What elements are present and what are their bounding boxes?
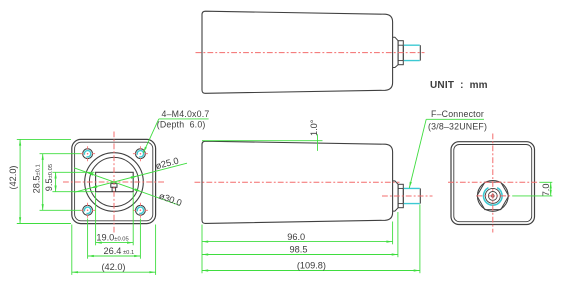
svg-text:UNIT : mm: UNIT : mm [430,80,488,91]
dim (109.8) extension line [419,205,421,274]
top view center line [196,52,425,54]
dim 26.4 line [88,255,141,257]
dim 98.5 [202,254,398,256]
side view connector washer [393,181,399,211]
dim 9.5 extension lines [52,171,94,173]
rear inner square [454,145,532,222]
probe [111,184,117,188]
svg-text:ø25.0: ø25.0 [154,156,179,172]
mounting hole bottom-right [133,203,148,218]
top view connector nut [398,41,403,65]
svg-text:96.0: 96.0 [287,232,305,242]
dim 28.5 extension lines [40,153,81,155]
top view thread cylinder [402,45,404,60]
rear center lines [492,134,494,233]
leader dia 30.0 [74,168,180,206]
dim (42.0) bottom line [72,271,156,273]
rear connector thread circle (cyan) [483,188,502,206]
svg-text:(42.0): (42.0) [101,262,125,272]
svg-text:(Depth 6.0): (Depth 6.0) [157,120,206,130]
F-Connector leader [409,119,426,188]
dim 7.0 line [550,182,552,196]
waveguide rectangle [96,172,134,191]
dim (109.8) [202,270,420,272]
mounting hole top-left [80,146,95,161]
dim 7.0 extension lines [512,195,552,197]
dim 9.5 line [55,172,57,191]
dim (42.0) left: extension lines [17,138,71,140]
svg-text:F–Connector: F–Connector [431,109,484,119]
top view connector washer [393,37,399,67]
circle dia 30 [85,153,144,212]
dim 96.0 [202,241,393,243]
dim 96.0 extension lines [201,225,203,274]
svg-text:(42.0): (42.0) [8,165,18,189]
front view center lines [113,132,115,233]
dim 28.5 line [42,154,44,211]
rear connector hex nut [477,182,509,210]
dim (42.0) left line [19,139,21,223]
svg-text:26.4 ±0.1: 26.4 ±0.1 [104,246,135,256]
svg-text:7.0: 7.0 [541,184,551,197]
leader dia 25.0 [74,163,187,192]
top view horn body [202,11,393,93]
circle dia 25 [89,157,138,206]
1.0 deg reference line [202,140,323,142]
mounting hole top-right [133,146,148,161]
side view main center line [195,181,400,183]
side view connector center line [382,195,433,197]
svg-text:(109.8): (109.8) [297,261,326,271]
leader 4-M4.0x0.7 [143,119,159,153]
svg-text:4–M4.0x0.7: 4–M4.0x0.7 [162,109,210,119]
flange inner square [75,142,153,221]
dim 26.4 extension lines [87,219,89,259]
side view thread cylinder [402,188,404,203]
side view connector nut [398,184,403,207]
svg-text:19.0±0.05: 19.0±0.05 [96,233,128,243]
rear connector horizontal center line [477,195,511,197]
svg-text:28.5±0.1: 28.5±0.1 [31,164,41,193]
rear connector washer circle [477,181,508,212]
svg-text:(3/8–32UNEF): (3/8–32UNEF) [428,122,487,132]
svg-text:ø30.0: ø30.0 [158,191,183,208]
svg-text:9.5±0.05: 9.5±0.05 [44,164,54,191]
dim 19.0 line [96,242,134,244]
dim (42.0) bottom extension lines [71,225,73,275]
svg-text:1.0°: 1.0° [309,119,319,136]
rear connector inner circles [485,188,500,203]
mounting hole bottom-left [80,203,95,218]
flange outer square [72,139,156,223]
dim 98.5 extension line [397,212,399,257]
dim 19.0 extension lines [95,193,97,246]
side view horn body [202,141,393,223]
svg-text:98.5: 98.5 [290,245,308,255]
rear outer square [451,142,535,225]
1.0 deg dimension line [317,134,319,151]
